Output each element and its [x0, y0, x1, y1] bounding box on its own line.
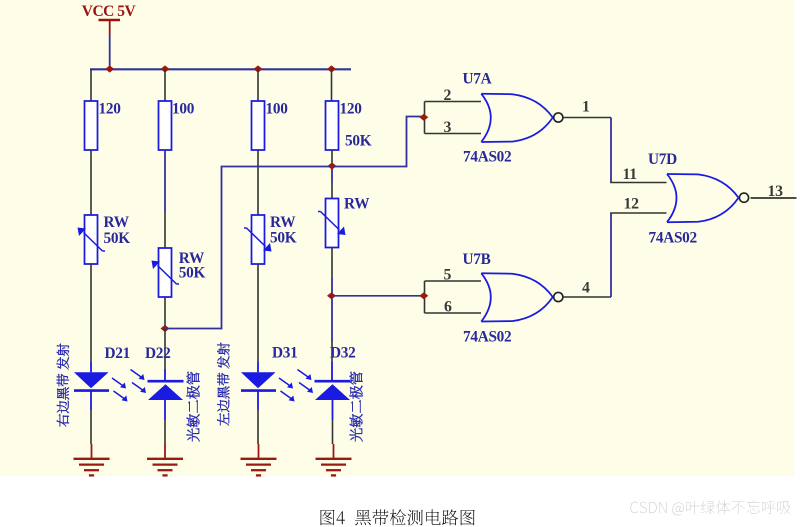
svg-text:RW: RW [104, 214, 130, 231]
wire: RW4 to node B [331, 248, 333, 278]
pin: D21 cathode [90, 391, 92, 410]
resistor R3 100 [252, 101, 265, 150]
resistor R2 100 [159, 101, 172, 150]
svg-text:120: 120 [99, 100, 122, 117]
wire: D31 to ground [257, 410, 259, 444]
junction: rail / R2 column [161, 65, 170, 72]
junction: node A (R4 / RW4 / tap to U7A) [328, 162, 337, 169]
potentiometer RW1 50K [85, 215, 98, 264]
ground: column 4 [333, 444, 335, 458]
wire: rail to R2 [164, 69, 166, 101]
junction: node B (to U7B) [327, 292, 336, 299]
label (vertical): right-side black-band emitter [57, 344, 69, 427]
wire: node B down [331, 299, 333, 343]
svg-text:50K: 50K [345, 132, 372, 149]
wire: node B to U7B input node [334, 295, 421, 297]
wire: R4 to node A [331, 150, 333, 163]
photodiode D22 [148, 380, 184, 383]
pin: D21 anode [90, 362, 92, 372]
pin 2 of U7A [425, 101, 482, 103]
svg-text:D21: D21 [105, 345, 130, 362]
junction: rail / R3 column [254, 65, 263, 72]
wire: node A to RW4 [331, 169, 333, 183]
ground: column 1 [91, 444, 93, 458]
wire: node A to U7A input node [334, 117, 421, 167]
potentiometer RW3 50K [252, 215, 265, 264]
pin 3 of U7A [425, 133, 482, 135]
NOR gate U7A 74AS02 [481, 94, 491, 142]
potentiometer RW2 50K [159, 248, 172, 297]
wire: U7B input tie bar [424, 281, 426, 313]
svg-text:50K: 50K [179, 265, 206, 282]
wire: D32 to ground [332, 420, 334, 444]
wire: rail to R3 [257, 69, 259, 101]
wire: D22 to ground [164, 420, 166, 444]
junction: U7B input node [419, 292, 428, 299]
pin: D22 anode [164, 400, 166, 420]
photodiode D32 [315, 380, 351, 383]
wire: VCC power rail [90, 68, 351, 70]
svg-text:2: 2 [444, 87, 452, 104]
wire: R3 to RW3 [257, 150, 259, 215]
pin: D31 cathode [257, 391, 259, 410]
pin 5 of U7B [425, 280, 482, 282]
svg-text:3: 3 [444, 119, 452, 136]
wire: U7A input tie bar [424, 102, 426, 134]
svg-text:5: 5 [444, 267, 452, 284]
ground: column 3 [258, 444, 260, 458]
svg-text:6: 6 [444, 299, 452, 316]
svg-text:RW: RW [344, 195, 370, 212]
junction: VCC / rail [105, 65, 114, 72]
pin 4 of U7B (output) [563, 296, 611, 298]
label (vertical): left-side black-band emitter [217, 343, 229, 426]
svg-text:U7B: U7B [463, 251, 491, 268]
svg-text:D31: D31 [272, 345, 297, 362]
svg-text:4: 4 [582, 280, 590, 297]
svg-text:120: 120 [340, 100, 363, 117]
wire: R1 to RW1 [90, 150, 92, 215]
wire: U7B output to U7D pin 12 [610, 213, 612, 297]
pin 12 of U7D [610, 212, 666, 214]
junction: U7A input node [419, 114, 428, 121]
wire: into node B [331, 278, 333, 293]
resistor R4 120 [326, 101, 339, 150]
ground: column 2 [164, 444, 166, 458]
svg-text:100: 100 [172, 100, 195, 117]
pin: D22 cathode [164, 369, 166, 381]
svg-text:11: 11 [623, 166, 638, 183]
wire: rail to R1 [90, 69, 92, 101]
svg-text:D32: D32 [330, 345, 355, 362]
svg-text:13: 13 [768, 183, 784, 200]
wire: VCC drop to rail [109, 35, 111, 70]
svg-text:U7D: U7D [648, 151, 677, 168]
wire: node to D22 [164, 329, 166, 370]
pin 13 of U7D (output) [751, 197, 797, 199]
wire: RW1 to D21 [90, 264, 92, 362]
NOR gate U7D 74AS02 [667, 174, 677, 222]
pin 1 of U7A (output) [563, 117, 611, 119]
svg-text:74AS02: 74AS02 [463, 328, 511, 345]
NOR gate U7B 74AS02 [481, 273, 491, 321]
LED D31 (emitter) [241, 372, 276, 388]
wire: to D32 [331, 342, 333, 362]
svg-text:100: 100 [266, 100, 289, 117]
svg-text:74AS02: 74AS02 [463, 148, 511, 165]
resistor R1 120 [85, 101, 98, 150]
svg-text:50K: 50K [270, 230, 297, 247]
pin: RW2 top [164, 211, 166, 248]
wire: U7A output to U7D pin 11 [610, 118, 612, 183]
svg-text:12: 12 [624, 196, 640, 213]
pin 11 of U7D [610, 182, 666, 184]
wire: RW3 to D31 [257, 264, 259, 362]
svg-text:RW: RW [270, 214, 296, 231]
pin 6 of U7B [425, 312, 482, 314]
svg-text:U7A: U7A [463, 71, 492, 88]
pin: RW4 top [331, 183, 333, 199]
wire: column2 tap to node A (L-shaped) [165, 167, 330, 329]
pin: D32 anode [332, 400, 334, 420]
svg-text:1: 1 [582, 98, 590, 115]
LED D21 (emitter) [74, 372, 109, 388]
junction: column2 / tap wire [161, 325, 170, 332]
wire: D21 to ground [90, 410, 92, 444]
pin: D32 cathode [331, 362, 333, 381]
potentiometer RW4 [326, 199, 339, 248]
label (vertical): photodiode (col 2) [187, 372, 200, 442]
wire: RW2 to node [164, 297, 166, 329]
power symbol VCC 5V [99, 19, 121, 22]
wire: rail to R4 [331, 69, 333, 101]
light arrows D21 to D22 [112, 378, 124, 387]
svg-text:VCC 5V: VCC 5V [82, 3, 137, 20]
junction: rail / R4 column [327, 65, 336, 72]
pin: D31 anode [257, 362, 259, 372]
wire: R2 to RW2 [164, 150, 166, 211]
watermark CSDN [630, 500, 790, 515]
label (vertical): photodiode (col 4) [350, 372, 363, 442]
light arrows D31 to D32 [279, 378, 291, 387]
caption: figure 4 black-band detection circuit [321, 509, 475, 525]
svg-text:50K: 50K [104, 230, 131, 247]
svg-text:D22: D22 [145, 345, 170, 362]
svg-text:74AS02: 74AS02 [649, 229, 697, 246]
